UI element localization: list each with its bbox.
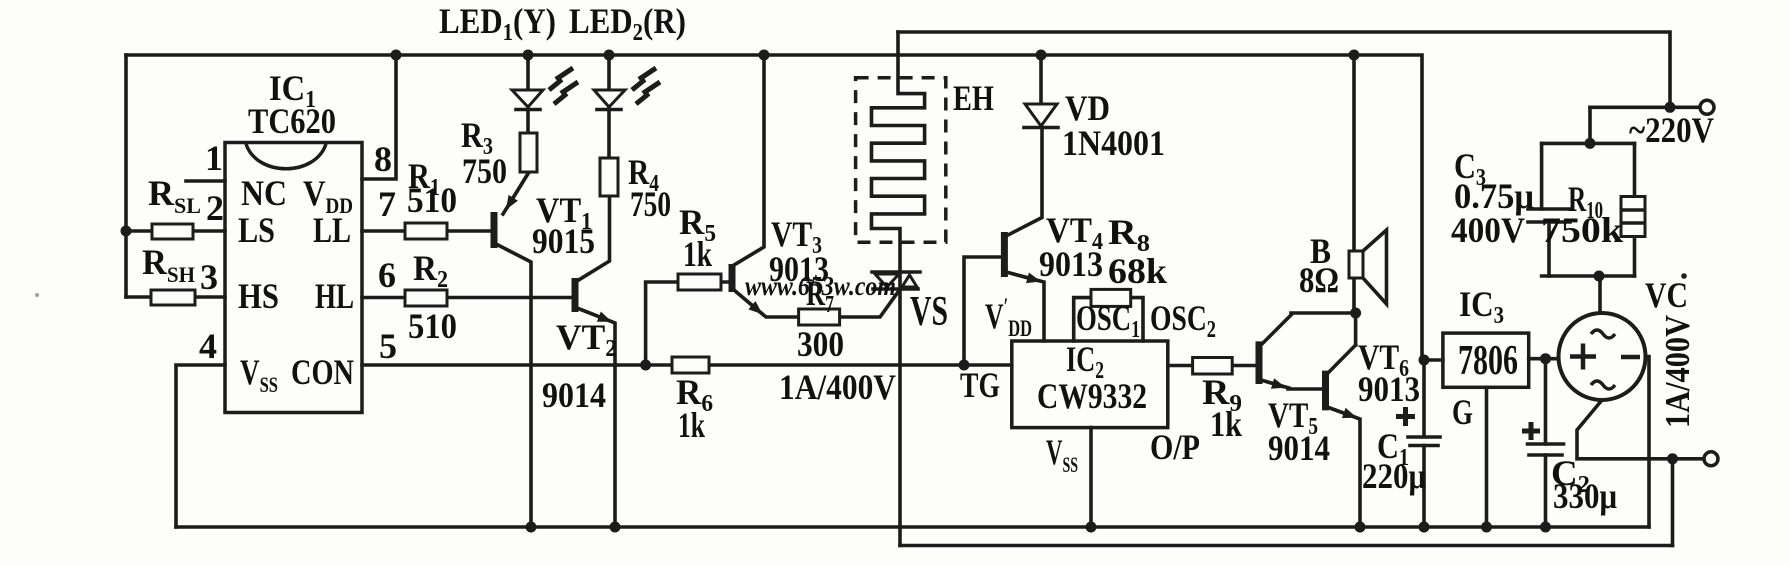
svg-text:VT2: VT2 (556, 317, 617, 362)
svg-text:OSC1: OSC1 (1076, 298, 1140, 343)
svg-text:VS: VS (910, 289, 948, 335)
svg-text:1k: 1k (683, 234, 712, 274)
svg-text:~220V: ~220V (1629, 110, 1714, 150)
svg-text:1N4001: 1N4001 (1062, 123, 1165, 163)
svg-text:CW9332: CW9332 (1037, 376, 1147, 416)
svg-text:9014: 9014 (1268, 428, 1330, 468)
svg-text:1: 1 (205, 138, 223, 178)
svg-text:TG: TG (960, 365, 1000, 405)
svg-text:V′DD: V′DD (985, 294, 1032, 341)
svg-text:LL: LL (313, 210, 351, 250)
svg-text:3: 3 (200, 257, 218, 297)
svg-text:5: 5 (379, 326, 397, 366)
svg-text:9013: 9013 (1358, 369, 1420, 409)
svg-text:IC3: IC3 (1459, 284, 1504, 329)
svg-text:750k: 750k (1541, 210, 1623, 250)
svg-text:2: 2 (206, 188, 224, 228)
svg-text:4: 4 (199, 326, 217, 366)
svg-text:TC620: TC620 (248, 101, 336, 141)
svg-text:7: 7 (378, 184, 396, 224)
svg-text:EH: EH (953, 78, 994, 118)
svg-text:9015: 9015 (532, 221, 595, 261)
svg-text:R2: R2 (413, 248, 448, 293)
svg-text:510: 510 (408, 306, 457, 346)
svg-text:9013: 9013 (1039, 244, 1103, 284)
svg-text:330μ: 330μ (1553, 476, 1617, 516)
svg-text:510: 510 (407, 180, 457, 220)
svg-text:1k: 1k (678, 405, 705, 445)
svg-text:CON: CON (291, 352, 354, 392)
svg-text:68k: 68k (1108, 251, 1167, 291)
svg-text:HL: HL (315, 276, 354, 316)
svg-text:8: 8 (374, 139, 392, 179)
svg-text:750: 750 (462, 151, 507, 191)
svg-text:VSS: VSS (240, 352, 278, 397)
svg-text:LED1(Y): LED1(Y) (439, 1, 556, 46)
svg-text:VD: VD (1065, 88, 1110, 128)
svg-text:8Ω: 8Ω (1299, 260, 1339, 300)
svg-text:VC: VC (1645, 275, 1688, 315)
svg-text:VSS: VSS (1046, 432, 1078, 477)
svg-text:1A/400V: 1A/400V (779, 367, 896, 407)
svg-text:300: 300 (797, 324, 844, 364)
svg-text:NC: NC (241, 173, 287, 213)
svg-text:HS: HS (238, 276, 279, 316)
svg-text:OSC2: OSC2 (1150, 298, 1216, 343)
svg-text:G: G (1452, 392, 1473, 432)
svg-text:O/P: O/P (1150, 427, 1200, 467)
svg-text:7806: 7806 (1458, 338, 1518, 384)
svg-text:www.653w.com: www.653w.com (745, 271, 896, 301)
svg-text:220μ: 220μ (1362, 456, 1426, 496)
svg-text:LED2(R): LED2(R) (569, 1, 686, 46)
svg-text:6: 6 (378, 255, 396, 295)
svg-text:1A/400V: 1A/400V (1658, 315, 1697, 428)
svg-text:750: 750 (630, 184, 671, 224)
svg-text:LS: LS (238, 210, 275, 250)
svg-text:9014: 9014 (542, 375, 606, 415)
svg-text:1k: 1k (1210, 404, 1242, 444)
svg-text:400V: 400V (1451, 210, 1525, 250)
svg-text:RSH: RSH (142, 242, 195, 287)
